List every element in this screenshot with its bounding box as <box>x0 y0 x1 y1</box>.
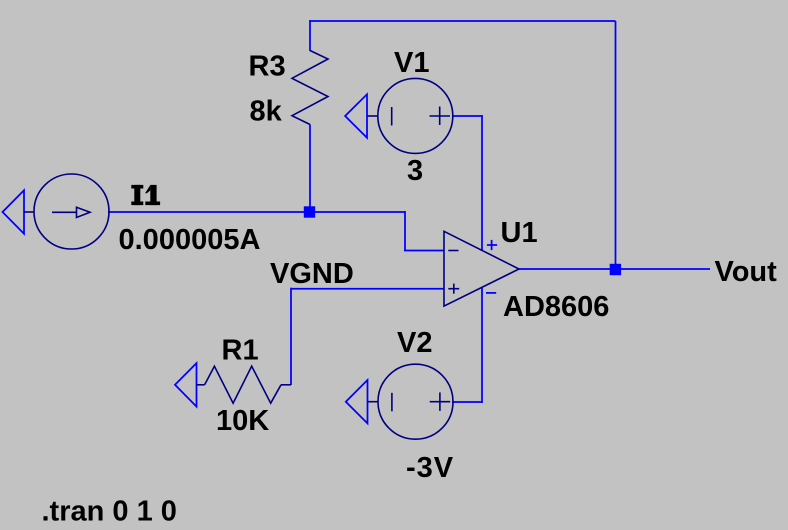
current source I1 <box>24 174 109 249</box>
svg-text:VGND: VGND <box>270 258 354 290</box>
wire inverting input vertical jog <box>404 211 406 251</box>
wire V2 to op-amp V- pin <box>481 288 483 403</box>
svg-text:8k: 8k <box>250 95 283 127</box>
svg-text:AD8606: AD8606 <box>503 291 609 323</box>
svg-text:-3V: -3V <box>406 452 454 484</box>
ground at V2 <box>346 380 368 423</box>
svg-text:0.000005A: 0.000005A <box>119 224 261 256</box>
ground at I1 <box>3 190 25 234</box>
svg-text:R1: R1 <box>222 334 259 366</box>
svg-text:.tran 0 1 0: .tran 0 1 0 <box>42 496 177 528</box>
op-amp V- pin minus mark <box>486 292 496 294</box>
wire V2 plus terminal horizontal <box>452 401 482 403</box>
op-amp V+ pin plus mark <box>487 240 497 250</box>
svg-text:3: 3 <box>407 155 423 187</box>
wire I1 to node A <box>108 211 310 213</box>
wire top feedback horizontal <box>310 20 616 22</box>
label I1 <box>131 185 160 205</box>
svg-text:R3: R3 <box>249 51 286 83</box>
wire into inverting input <box>404 250 444 252</box>
ground at V1 <box>345 94 367 138</box>
voltage source V2 <box>368 364 454 439</box>
svg-text:V2: V2 <box>397 327 432 359</box>
node A junction square <box>304 206 315 217</box>
wire V1 to op-amp V+ pin <box>481 115 483 250</box>
svg-text:10K: 10K <box>216 405 269 437</box>
wire VGND to non-inverting input <box>291 288 444 290</box>
wire V1 plus terminal horizontal <box>452 115 482 117</box>
ground at R1 <box>175 363 197 407</box>
wire op-amp output to Vout <box>519 268 710 270</box>
wire feedback vertical right <box>615 21 617 269</box>
resistor R1 <box>197 366 292 403</box>
svg-text:Vout: Vout <box>715 256 778 288</box>
svg-text:V1: V1 <box>394 47 429 79</box>
voltage source V1 <box>368 78 453 153</box>
wire node A to inverting input horizontal <box>310 211 406 213</box>
svg-text:U1: U1 <box>501 217 538 249</box>
resistor R3 <box>292 51 328 125</box>
wire R3 top stub <box>309 20 311 51</box>
wire R3 bottom to node A <box>309 125 311 213</box>
node Vout junction square <box>610 264 621 275</box>
wire R1 riser vertical <box>290 288 292 385</box>
op-amp U1 <box>444 231 519 306</box>
